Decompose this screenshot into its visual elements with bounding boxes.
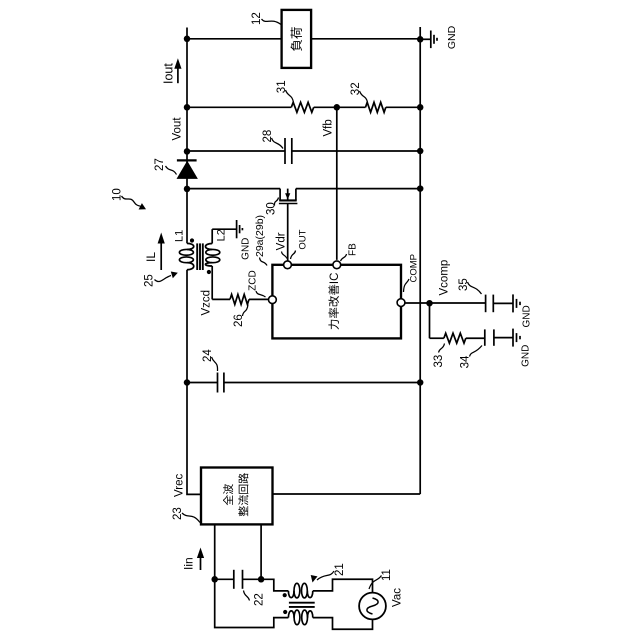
svg-text:FB: FB xyxy=(348,243,359,256)
svg-text:24: 24 xyxy=(202,349,214,362)
svg-text:Vout: Vout xyxy=(172,117,184,141)
svg-text:GND: GND xyxy=(522,305,533,327)
svg-text:IL: IL xyxy=(144,252,158,262)
svg-text:23: 23 xyxy=(172,507,184,520)
svg-text:22: 22 xyxy=(254,593,266,606)
svg-text:11: 11 xyxy=(381,569,393,581)
svg-text:GND: GND xyxy=(241,238,252,260)
svg-text:GND: GND xyxy=(446,25,458,49)
svg-text:Vac: Vac xyxy=(392,588,404,607)
svg-text:30: 30 xyxy=(266,202,278,215)
svg-text:32: 32 xyxy=(350,82,362,95)
svg-text:34: 34 xyxy=(460,355,472,368)
svg-text:Vrec: Vrec xyxy=(174,474,186,497)
svg-text:27: 27 xyxy=(154,158,166,171)
svg-text:26: 26 xyxy=(233,314,245,327)
svg-text:Vcomp: Vcomp xyxy=(439,260,451,296)
svg-text:Vfb: Vfb xyxy=(323,119,335,136)
svg-text:31: 31 xyxy=(276,80,288,93)
svg-text:Iout: Iout xyxy=(162,63,176,84)
svg-text:25: 25 xyxy=(144,274,156,287)
svg-text:OUT: OUT xyxy=(298,229,309,249)
svg-text:Vdr: Vdr xyxy=(276,232,288,250)
svg-text:35: 35 xyxy=(458,278,470,291)
svg-text:10: 10 xyxy=(112,188,124,201)
svg-text:IC: IC xyxy=(329,273,341,285)
svg-text:12: 12 xyxy=(251,12,263,25)
svg-text:33: 33 xyxy=(433,355,445,368)
svg-text:28: 28 xyxy=(262,130,274,143)
svg-text:L2: L2 xyxy=(216,229,228,241)
svg-text:COMP: COMP xyxy=(409,254,420,283)
svg-text:GND: GND xyxy=(521,345,532,367)
svg-text:29a(29b): 29a(29b) xyxy=(254,215,266,257)
svg-text:ZCD: ZCD xyxy=(248,270,259,291)
svg-text:Vzcd: Vzcd xyxy=(201,290,213,316)
svg-text:L1: L1 xyxy=(174,230,186,242)
svg-text:Iin: Iin xyxy=(182,557,196,570)
svg-text:21: 21 xyxy=(334,563,346,576)
